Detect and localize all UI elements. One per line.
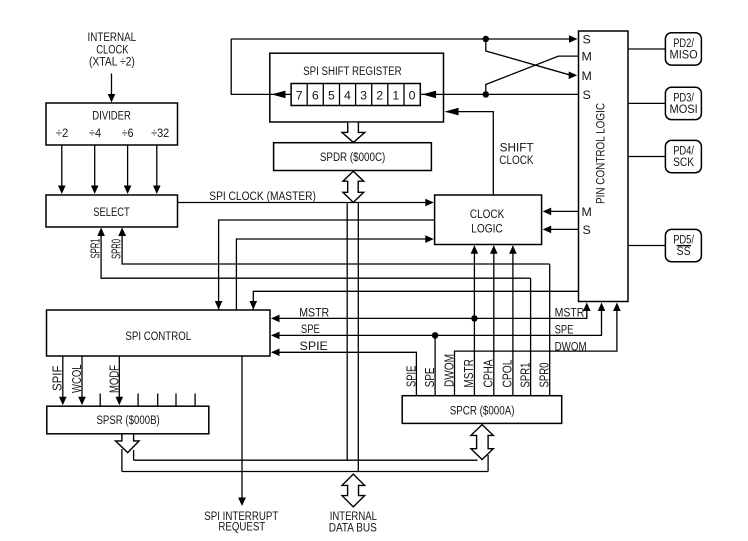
node junction on bit0 line	[483, 91, 490, 98]
wire WCOL to SPSR	[78, 356, 86, 405]
svg-text:SS: SS	[677, 246, 691, 258]
svg-text:PD3/: PD3/	[673, 92, 694, 104]
wire SPR0 column down to SPCR	[549, 264, 551, 396]
wire MSTR into SPI control and up to pin control	[271, 303, 591, 323]
wire pin control to PD2	[628, 48, 665, 50]
svg-text:SPR1: SPR1	[518, 363, 533, 388]
wire SPR0 into select	[118, 228, 549, 265]
wire SPIF to SPSR	[59, 356, 67, 405]
label SHIFT CLOCK	[499, 140, 534, 167]
wire SPR1 into select	[97, 228, 523, 279]
wire SPE into SPI control and up to pin control	[271, 303, 605, 340]
svg-text:M: M	[582, 205, 592, 219]
node junction on top rail	[483, 36, 490, 43]
block SELECT	[46, 195, 178, 227]
svg-text:5: 5	[328, 88, 335, 102]
svg-text:SELECT: SELECT	[93, 205, 130, 219]
svg-text:PD2/: PD2/	[673, 38, 694, 50]
svg-text:MISO: MISO	[670, 49, 698, 61]
svg-text:SPR1: SPR1	[88, 239, 103, 259]
svg-text:SPI CONTROL: SPI CONTROL	[125, 329, 191, 343]
bus hollow arrow shift register to SPDR	[342, 123, 365, 143]
svg-text:÷2: ÷2	[56, 126, 68, 140]
internal data bus vertical pair	[347, 203, 358, 471]
node junction SPE column	[432, 332, 439, 339]
bus rail B lower	[122, 471, 488, 473]
block PD4/SCK pad	[665, 140, 701, 172]
block SPDR ($000C)	[274, 143, 432, 171]
svg-text:DATA BUS: DATA BUS	[329, 520, 377, 534]
SPSR bit tick stubs	[100, 394, 195, 407]
svg-text:SPE: SPE	[422, 367, 437, 387]
wire tap to clock logic lower with arrow	[236, 235, 433, 311]
wire divider tap ÷32 to select	[153, 145, 161, 194]
block PD3/MOSI pad	[665, 87, 701, 119]
wire top rail to pin control S input	[231, 35, 577, 43]
svg-text:MSTR: MSTR	[461, 359, 476, 388]
arrowhead into SPI CONTROL top from x218.6	[215, 301, 223, 310]
wire pin control S to clock logic	[543, 226, 579, 234]
svg-text:SPR0: SPR0	[537, 363, 552, 388]
svg-text:SPE: SPE	[555, 323, 574, 337]
svg-text:CLOCK: CLOCK	[499, 153, 534, 167]
label INTERNAL DATA BUS	[329, 509, 377, 534]
block SPI CONTROL	[47, 310, 271, 356]
wire CPHA column up into clock logic	[490, 245, 498, 395]
wire internal clock into divider	[108, 74, 116, 103]
svg-text:MSTR: MSTR	[299, 305, 329, 319]
svg-text:SPCR ($000A): SPCR ($000A)	[450, 404, 515, 418]
wire DWOM from SPCR up to pin control	[455, 303, 621, 396]
svg-text:S: S	[583, 223, 591, 237]
svg-text:S: S	[583, 88, 591, 102]
block SPCR ($000A)	[402, 396, 562, 424]
block PIN CONTROL LOGIC	[579, 31, 629, 302]
block CLOCK LOGIC	[435, 195, 542, 245]
block DIVIDER	[46, 103, 178, 145]
wire pin control M to clock logic	[543, 208, 579, 216]
svg-text:SPR0: SPR0	[109, 239, 124, 259]
bus hollow double arrow SPCR to internal bus	[471, 425, 493, 460]
svg-text:2: 2	[376, 88, 383, 102]
svg-text:SPIE: SPIE	[300, 339, 328, 353]
svg-text:PIN CONTROL LOGIC: PIN CONTROL LOGIC	[594, 103, 608, 204]
svg-text:÷4: ÷4	[89, 126, 101, 140]
svg-text:CLOCK: CLOCK	[470, 207, 505, 221]
svg-text:SPSR ($000B): SPSR ($000B)	[97, 413, 160, 427]
svg-text:MOSI: MOSI	[670, 104, 698, 116]
wire divider tap ÷4 to select	[91, 145, 99, 194]
svg-text:PD5/: PD5/	[673, 234, 694, 246]
shift register bit cells 7..0	[291, 84, 420, 106]
svg-text:MSTR: MSTR	[555, 305, 585, 319]
wire SPCR arrow right shaft drop	[487, 455, 489, 472]
wire SPI interrupt request	[238, 356, 246, 506]
wire divider tap ÷2 to select	[58, 145, 66, 194]
wire SPIE into SPI control from SPCR	[271, 349, 416, 396]
bus hollow arrow SPSR to internal bus	[116, 435, 140, 453]
svg-text:SPE: SPE	[301, 322, 320, 336]
wire divider tap ÷6 to select	[124, 145, 132, 194]
wire pin control to PD3	[628, 102, 665, 104]
svg-text:1: 1	[392, 88, 399, 102]
block PD5/SS-bar pad	[665, 229, 701, 261]
svg-text:6: 6	[312, 88, 319, 102]
svg-text:0: 0	[409, 88, 416, 102]
svg-text:CPHA: CPHA	[481, 359, 496, 387]
label INTERNAL CLOCK (XTAL ÷2)	[88, 30, 137, 69]
svg-text:4: 4	[344, 88, 351, 102]
svg-text:M: M	[582, 69, 592, 83]
svg-text:SCK: SCK	[673, 157, 694, 169]
svg-text:SPDR ($000C): SPDR ($000C)	[320, 150, 385, 164]
wire MODF to SPSR	[116, 356, 124, 405]
block SPI SHIFT REGISTER	[270, 53, 444, 122]
svg-text:SPI SHIFT REGISTER: SPI SHIFT REGISTER	[303, 64, 402, 78]
svg-text:SPI CLOCK (MASTER): SPI CLOCK (MASTER)	[209, 189, 316, 203]
svg-text:M: M	[582, 50, 592, 64]
wire serial out of bit 7 left and up to top rail	[231, 39, 291, 98]
svg-text:DWOM: DWOM	[441, 354, 456, 387]
wire crossover top rail to lower M input	[486, 41, 577, 79]
svg-text:DWOM: DWOM	[555, 339, 587, 353]
svg-text:CPOL: CPOL	[500, 360, 515, 388]
wire crossover bit0 line to upper M input	[486, 56, 579, 92]
wire CPOL column up into clock logic	[509, 245, 517, 395]
wire mode line to pin control (y 291)	[250, 291, 579, 311]
wire SPI CLOCK (MASTER) select to clock logic	[178, 199, 434, 207]
wire SPSR arrow shaft drop left	[121, 449, 123, 472]
svg-text:÷32: ÷32	[151, 126, 169, 140]
wire SPE column	[434, 335, 436, 395]
svg-text:LOGIC: LOGIC	[471, 222, 503, 236]
label SPI INTERRUPT REQUEST	[204, 509, 278, 533]
wire bus tap to clock logic mid (no arrow)	[219, 220, 435, 312]
svg-text:÷6: ÷6	[122, 126, 134, 140]
wire shift clock from clock logic into shift register	[445, 108, 494, 195]
svg-text:7: 7	[296, 88, 303, 102]
block PD2/MISO pad	[665, 33, 701, 65]
svg-text:PD4/: PD4/	[673, 145, 694, 157]
node junction MSTR column	[471, 315, 478, 322]
wire pin control to PD5	[628, 245, 665, 247]
svg-text:(XTAL ÷2): (XTAL ÷2)	[89, 55, 135, 69]
block SPSR ($000B)	[47, 406, 209, 434]
wire SPR1 column down to SPCR	[530, 278, 532, 396]
svg-text:DIVIDER: DIVIDER	[92, 109, 131, 123]
wire serial in to bit 0 from pin control S	[420, 91, 578, 99]
svg-text:S: S	[583, 33, 591, 47]
wire SPSR arrow shaft drop right	[133, 450, 135, 460]
wire MSTR column up into clock logic	[471, 245, 479, 395]
bus hollow double arrow to internal data bus	[342, 474, 365, 507]
bus hollow double arrow SPDR to internal bus	[343, 171, 364, 202]
bus rail A upper	[134, 459, 478, 461]
svg-text:SPIE: SPIE	[404, 365, 419, 387]
svg-text:3: 3	[360, 88, 367, 102]
wire pin control to PD4	[628, 156, 665, 158]
svg-text:REQUEST: REQUEST	[218, 519, 265, 533]
